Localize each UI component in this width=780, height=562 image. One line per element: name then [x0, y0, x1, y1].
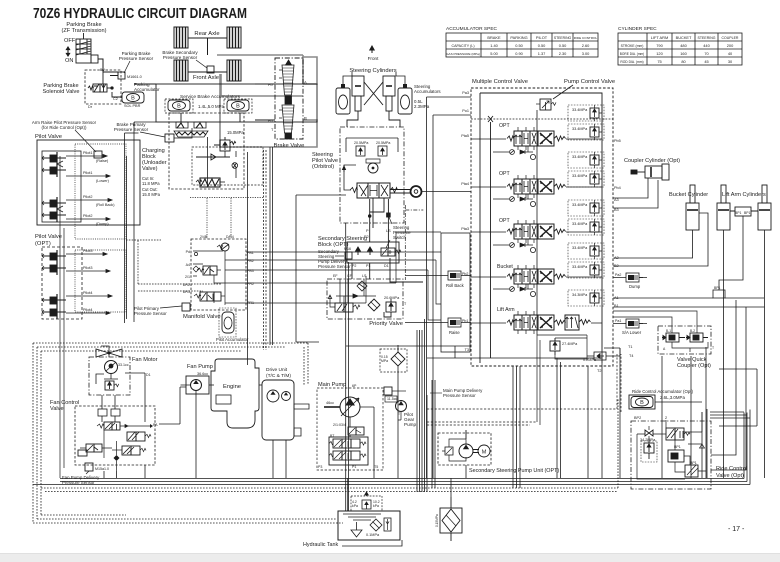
priority spool	[328, 295, 360, 312]
breather	[351, 496, 382, 511]
crossover manifold	[735, 207, 751, 216]
svg-text:33.4MPa: 33.4MPa	[572, 155, 588, 159]
return filter (right of tank)	[435, 497, 462, 541]
sensor	[85, 463, 93, 471]
check valve mid	[196, 154, 230, 160]
drop lines to charging block	[181, 113, 240, 122]
svg-text:Pump Control Valve: Pump Control Valve	[564, 79, 615, 85]
svg-text:Dump: Dump	[629, 284, 641, 289]
svg-text:Engine: Engine	[223, 384, 241, 390]
down pipes to orbitrol	[347, 111, 400, 127]
lower mid valve	[112, 446, 146, 455]
svg-text:Raise: Raise	[449, 330, 460, 335]
svg-text:BP1: BP1	[744, 211, 751, 215]
orbitrol P / LS drop lines	[352, 199, 423, 282]
svg-text:36.6cc: 36.6cc	[197, 372, 208, 376]
svg-text:T2: T2	[597, 369, 601, 373]
svg-text:Pilot2: Pilot2	[83, 214, 93, 218]
svg-text:0.50: 0.50	[559, 43, 567, 48]
verticals right side	[588, 348, 620, 478]
svg-text:Secondary Steering Pump Unit (: Secondary Steering Pump Unit (OPT)	[469, 468, 559, 474]
steering cylinders	[336, 68, 441, 127]
coupler cylinder (opt)	[613, 158, 680, 208]
svg-text:Pilot1: Pilot1	[83, 151, 93, 155]
M16 sensor	[345, 252, 352, 259]
svg-text:A3: A3	[614, 198, 619, 202]
relief 34.3 above	[568, 290, 604, 306]
svg-text:Pressure Sensor: Pressure Sensor	[134, 311, 167, 316]
svg-text:Pta5: Pta5	[461, 134, 469, 138]
svg-text:440: 440	[703, 43, 710, 48]
leader to A/B ports	[613, 311, 697, 333]
MCV dashed outline	[471, 88, 613, 366]
wires	[613, 213, 708, 266]
pump circle	[340, 397, 360, 417]
svg-text:P1: P1	[352, 465, 356, 469]
svg-text:BP1: BP1	[735, 211, 742, 215]
wires in block	[340, 279, 364, 303]
drain + relief	[96, 374, 118, 384]
hydraulic tank	[303, 492, 402, 548]
top dotted feeders	[190, 198, 263, 240]
svg-text:33.4MPa: 33.4MPa	[572, 265, 588, 269]
wire from transmission to solenoid valve	[98, 59, 103, 72]
svg-text:SOL PBR: SOL PBR	[124, 104, 141, 108]
solenoid valve 1	[197, 266, 221, 275]
supply trunk lines left of MCV	[427, 97, 434, 478]
svg-text:Solenoid Valve: Solenoid Valve	[43, 89, 80, 95]
dash-dot box	[89, 357, 130, 395]
svg-text:CF: CF	[347, 274, 353, 278]
brake circuit wires (gray thick)	[217, 55, 317, 147]
svg-text:0.1MPa: 0.1MPa	[366, 533, 380, 537]
dashed box	[75, 406, 155, 465]
dash-dot box	[658, 326, 711, 354]
svg-text:11.5cc: 11.5cc	[387, 397, 398, 401]
svg-text:OPT: OPT	[499, 123, 510, 129]
svg-text:15.0MPa: 15.0MPa	[227, 130, 244, 135]
svg-text:P3: P3	[318, 465, 322, 469]
svg-text:Pressure Sensor: Pressure Sensor	[114, 127, 149, 132]
svg-text:BT: BT	[330, 434, 334, 438]
svg-text:T: T	[712, 346, 714, 350]
arm raise pilot pressure sensor label	[32, 120, 97, 152]
two modulating elements	[279, 60, 294, 139]
dashed box	[85, 70, 121, 104]
svg-text:Fan Motor: Fan Motor	[132, 357, 158, 363]
svg-text:P2: P2	[364, 235, 369, 239]
dash-dot box	[327, 279, 403, 319]
svg-text:D1: D1	[384, 264, 389, 268]
filter diamond	[368, 299, 380, 311]
charging block	[114, 113, 263, 197]
svg-text:70Z6 HYDRAULIC CIRCUIT DIAGRAM: 70Z6 HYDRAULIC CIRCUIT DIAGRAM	[33, 6, 247, 22]
secondary steering block (opt)	[318, 199, 423, 282]
solenoid valve 2	[194, 292, 225, 301]
svg-text:2.3MPa: 2.3MPa	[414, 104, 430, 109]
svg-text:200: 200	[727, 43, 734, 48]
service brake accumulators box	[156, 84, 317, 122]
svg-text:0.2MPa: 0.2MPa	[583, 358, 597, 362]
svg-text:Multiple Control Valve: Multiple Control Valve	[472, 79, 528, 85]
svg-text:Manifold Valve: Manifold Valve	[183, 314, 221, 320]
steering accumulators	[336, 72, 352, 114]
svg-text:BUCKET: BUCKET	[676, 35, 692, 40]
outer solid box	[37, 140, 140, 225]
svg-text:Pa1: Pa1	[615, 319, 621, 323]
check poppets	[356, 247, 361, 255]
svg-text:M: M	[482, 450, 487, 456]
internal wires	[637, 420, 706, 479]
left accumulator	[165, 99, 193, 113]
svg-text:Pilot4: Pilot4	[83, 291, 93, 295]
svg-text:Ride Control Accumulator (Opt): Ride Control Accumulator (Opt)	[632, 389, 694, 394]
svg-text:(T/C & T/M): (T/C & T/M)	[266, 373, 291, 379]
joystick unit 4	[42, 294, 66, 319]
dashed box	[169, 113, 244, 189]
svg-text:0.50: 0.50	[538, 43, 546, 48]
svg-text:480: 480	[680, 43, 687, 48]
svg-text:Steering Cylinders: Steering Cylinders	[349, 68, 396, 74]
svg-text:Pressure Sensor: Pressure Sensor	[443, 393, 476, 398]
leader from steering pressure switch	[386, 240, 390, 248]
spool valve	[350, 183, 398, 198]
priority valve	[327, 274, 407, 327]
MCV bottom internal wires	[537, 335, 620, 360]
parking brake (zf transmission)	[61, 22, 106, 72]
engine	[209, 359, 259, 428]
suction filter	[370, 519, 382, 531]
two coupler valves	[662, 333, 708, 342]
svg-text:33.4MPa: 33.4MPa	[572, 222, 588, 226]
steering pilot valve (orbitrol)	[312, 127, 422, 240]
bottom relief 27.4MPa	[550, 338, 560, 355]
svg-text:33.4MPa: 33.4MPa	[572, 203, 588, 207]
svg-text:B-1: B-1	[666, 329, 671, 333]
wires: head/rod sides	[613, 230, 765, 345]
svg-text:30: 30	[728, 59, 733, 64]
svg-text:PB1: PB1	[247, 251, 254, 255]
svg-text:120: 120	[656, 51, 663, 56]
svg-text:0.50: 0.50	[515, 43, 523, 48]
line from wheel to Pta4	[422, 191, 472, 193]
front arrow	[368, 46, 379, 61]
Roll Back pilot element left	[444, 271, 465, 280]
svg-text:27.4MPa: 27.4MPa	[562, 342, 578, 346]
secondary steering pump unit	[438, 430, 559, 474]
0.2MPa check	[594, 352, 606, 360]
right cylinder	[383, 76, 395, 111]
top twin ports	[98, 409, 107, 416]
svg-text:1.37: 1.37	[538, 51, 546, 56]
dotted return buses	[41, 398, 618, 492]
propeller	[96, 349, 122, 357]
strainer	[351, 530, 362, 537]
svg-text:ROD DIA. (mm): ROD DIA. (mm)	[620, 60, 643, 64]
rear axle brake line to brake valve A port	[217, 55, 303, 84]
pilot accumulator	[216, 308, 249, 342]
svg-text:Ride Control: Ride Control	[716, 466, 747, 472]
svg-text:M15a1.0: M15a1.0	[95, 467, 109, 471]
svg-text:OFF: OFF	[64, 38, 76, 44]
joystick unit 1	[42, 152, 66, 177]
svg-text:STEERING: STEERING	[698, 36, 716, 40]
svg-text:Po1: Po1	[462, 109, 469, 113]
small valve right	[233, 163, 237, 168]
svg-text:(Raise): (Raise)	[96, 159, 109, 163]
solenoid valve symbol	[88, 84, 113, 92]
dotted pilot-return box	[75, 144, 126, 239]
svg-text:40: 40	[728, 51, 733, 56]
svg-text:OPT: OPT	[499, 218, 510, 224]
right accumulator	[224, 99, 252, 113]
float extension	[565, 315, 579, 330]
dash-dot box	[340, 127, 404, 223]
center return verticals	[248, 147, 347, 365]
brake valve	[134, 58, 307, 149]
svg-text:2: 2	[665, 416, 667, 420]
svg-text:D/R4: D/R4	[226, 235, 234, 239]
svg-text:Lift Arm: Lift Arm	[497, 307, 515, 313]
steering wheel	[390, 190, 410, 194]
svg-text:DR3: DR3	[183, 290, 190, 294]
svg-text:M1661.0: M1661.0	[127, 75, 142, 79]
filter diamond right	[357, 281, 367, 291]
svg-text:DR2: DR2	[183, 283, 190, 287]
rear wheels	[174, 27, 188, 48]
tank body	[338, 511, 400, 540]
Raise element left	[444, 318, 465, 327]
svg-text:kPa: kPa	[373, 504, 379, 508]
internal dashed pilot line + X node	[471, 118, 613, 120]
relief	[641, 440, 657, 462]
left cylinder	[352, 76, 364, 111]
svg-text:(OPT): (OPT)	[35, 241, 51, 247]
motor circle	[105, 361, 118, 374]
svg-text:- 17 -: - 17 -	[728, 526, 745, 533]
multiple control valve	[471, 79, 615, 366]
port wires	[134, 84, 275, 120]
sensor square top	[94, 151, 102, 158]
svg-text:Front: Front	[368, 56, 379, 61]
svg-text:Pump: Pump	[404, 422, 416, 427]
fan pump	[181, 364, 213, 395]
small left valve	[78, 444, 112, 456]
port labels left	[183, 250, 190, 294]
pump control valve symbol	[536, 85, 573, 110]
svg-text:PB2: PB2	[247, 259, 254, 263]
pressure compensator	[127, 432, 151, 441]
svg-text:BRAKE: BRAKE	[487, 35, 501, 40]
svg-text:(Roll Back): (Roll Back)	[96, 203, 115, 207]
regulator small valve	[348, 427, 364, 435]
svg-text:C2: C2	[113, 97, 118, 101]
main pump + regulator	[317, 382, 383, 470]
svg-text:ON: ON	[65, 58, 73, 64]
Dump element right	[622, 273, 643, 282]
svg-text:PARKING: PARKING	[510, 35, 527, 40]
port labels right	[247, 251, 254, 305]
lower block	[685, 465, 698, 477]
main solenoid valve	[97, 422, 128, 430]
leader	[124, 61, 130, 73]
row 4 Bucket	[405, 243, 647, 297]
svg-text:20.6MPa: 20.6MPa	[384, 296, 400, 300]
top internal loop	[346, 138, 398, 152]
svg-text:BP2: BP2	[634, 416, 641, 420]
svg-text:Bucket Cylinder: Bucket Cylinder	[669, 192, 708, 198]
svg-text:Switch: Switch	[393, 235, 406, 240]
svg-text:70: 70	[704, 51, 709, 56]
relief w/ pilot	[384, 299, 396, 317]
wires inside	[208, 137, 237, 187]
main pump sensor + pilot gear pump	[384, 387, 483, 427]
svg-text:Drive Unit: Drive Unit	[266, 367, 288, 373]
svg-text:T5: T5	[374, 465, 378, 469]
ride control accumulator	[629, 389, 702, 409]
internal check arrow line	[336, 294, 376, 298]
svg-text:1.40: 1.40	[490, 43, 498, 48]
long horizontal solid buses	[60, 413, 744, 479]
BP1 tee element mid	[713, 290, 725, 298]
transmission ladder block	[76, 33, 98, 63]
small valve right	[381, 248, 401, 256]
svg-text:Pilot1: Pilot1	[83, 171, 93, 175]
accumulator spec table	[446, 26, 598, 57]
svg-text:Pressure Sensor: Pressure Sensor	[119, 56, 154, 61]
svg-text:P2: P2	[352, 264, 356, 268]
svg-text:EF: EF	[333, 274, 338, 278]
main spool valve	[661, 428, 690, 440]
cylinder spec table	[618, 26, 742, 65]
inner dashed box	[192, 147, 263, 185]
svg-text:T: T	[404, 302, 407, 306]
svg-text:Pilot3: Pilot3	[83, 266, 93, 270]
svg-text:MPa: MPa	[381, 359, 388, 363]
pilot element enclosure left of MCV	[441, 233, 470, 352]
svg-text:15.0 MPa: 15.0 MPa	[142, 192, 161, 197]
internal wiring	[672, 342, 708, 352]
svg-text:Front Axle: Front Axle	[193, 75, 219, 81]
svg-text:RIDE CONTROL: RIDE CONTROL	[574, 36, 598, 40]
svg-text:2/1: 2/1	[185, 275, 190, 279]
svg-text:Pa3: Pa3	[462, 91, 469, 95]
svg-text:BP1: BP1	[714, 286, 721, 290]
svg-text:LIFT ARM: LIFT ARM	[651, 35, 668, 40]
svg-text:2.6L,3.0MPa: 2.6L,3.0MPa	[660, 395, 685, 400]
port lines with arrows	[66, 155, 112, 221]
wire buses	[33, 156, 765, 523]
svg-text:Lift Arm Cylinders: Lift Arm Cylinders	[722, 192, 766, 198]
inner solid box	[42, 151, 81, 222]
svg-text:ACCUMULATOR SPEC: ACCUMULATOR SPEC	[446, 26, 498, 32]
pilot filter (top)	[380, 345, 407, 378]
svg-text:34.2MPa: 34.2MPa	[640, 438, 656, 442]
center vertical trunks	[345, 223, 347, 511]
svg-text:Bucket: Bucket	[497, 264, 513, 270]
svg-text:0.15MPa: 0.15MPa	[435, 514, 439, 527]
svg-text:PR2: PR2	[247, 282, 254, 286]
svg-text:Pressure Sensor: Pressure Sensor	[163, 55, 198, 60]
svg-text:(Dump): (Dump)	[96, 222, 109, 226]
pilot valve (opt)	[35, 234, 126, 319]
left dotted boundary	[33, 343, 41, 523]
row 3 OPT	[471, 200, 604, 253]
pilot valve (main)	[35, 134, 140, 239]
svg-text:Accumulators: Accumulators	[414, 89, 441, 94]
svg-text:Brake Valve: Brake Valve	[274, 143, 305, 149]
feedback arrow left	[344, 165, 356, 190]
svg-text:33.1cc: 33.1cc	[118, 363, 129, 367]
svg-text:T4: T4	[629, 354, 633, 358]
ride control valve (opt)	[631, 412, 747, 489]
top small relief	[217, 243, 229, 251]
svg-text:Roll Back: Roll Back	[446, 283, 465, 288]
svg-text:B-2: B-2	[690, 329, 695, 333]
unloader spool dark	[196, 178, 225, 187]
svg-text:Fan Pump: Fan Pump	[187, 364, 213, 370]
right-edge routing wires	[711, 300, 757, 470]
joystick unit 2	[42, 197, 66, 222]
svg-text:(for Ride Control (Opt)): (for Ride Control (Opt))	[42, 125, 87, 130]
long dashed ride-control pilot line	[427, 354, 617, 409]
svg-text:B3: B3	[614, 208, 619, 212]
inlet check	[445, 447, 453, 455]
svg-text:3.00: 3.00	[582, 51, 590, 56]
svg-text:75: 75	[657, 59, 661, 64]
svg-text:M16: M16	[344, 247, 351, 251]
manifold to pilot lines	[246, 232, 441, 320]
row 2 OPT	[471, 152, 604, 207]
svg-text:Valve: Valve	[50, 406, 64, 412]
svg-text:5.00: 5.00	[490, 51, 498, 56]
svg-text:Pilot2: Pilot2	[83, 195, 93, 199]
svg-text:Pilot Valve: Pilot Valve	[35, 134, 62, 140]
svg-text:33.4MPa: 33.4MPa	[572, 127, 588, 131]
svg-text:T: T	[271, 128, 274, 132]
svg-text:B: B	[304, 116, 307, 121]
solenoid block	[668, 450, 690, 465]
fan motor	[89, 346, 158, 422]
svg-text:45: 45	[704, 59, 708, 64]
MCV port labels	[461, 91, 469, 352]
pilot primary pressure sensor	[134, 303, 191, 316]
svg-text:34.3MPa: 34.3MPa	[572, 293, 588, 297]
internal wires	[126, 240, 246, 305]
wires down to MCV ports	[613, 178, 658, 208]
twin check valves (dark M shapes)	[174, 122, 208, 137]
svg-text:Rear Axle: Rear Axle	[194, 31, 219, 37]
svg-text:Pd: Pd	[186, 250, 190, 254]
regulator block	[329, 437, 368, 465]
svg-text:80: 80	[681, 59, 686, 64]
svg-text:Pilot4: Pilot4	[83, 308, 93, 312]
row 5 Lift Arm	[405, 290, 647, 362]
svg-text:33.4MPa: 33.4MPa	[572, 108, 588, 112]
block outline	[347, 242, 399, 263]
S/A Lower element right	[622, 319, 643, 328]
svg-text:6P: 6P	[352, 384, 357, 388]
svg-text:kPa: kPa	[352, 504, 358, 508]
svg-text:PB3: PB3	[247, 269, 254, 273]
svg-text:Pilot Accumulator: Pilot Accumulator	[216, 337, 249, 342]
gerotor circle	[368, 163, 378, 173]
svg-text:CAPACITY (L): CAPACITY (L)	[451, 44, 474, 48]
joystick unit 3	[42, 250, 66, 275]
svg-text:Priority Valve: Priority Valve	[369, 321, 403, 327]
sensor square	[118, 72, 125, 79]
fan control valve	[50, 395, 158, 485]
